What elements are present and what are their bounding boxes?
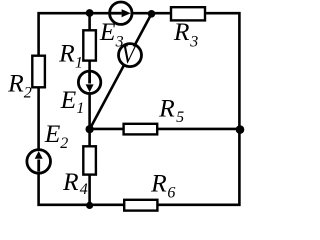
svg-text:2: 2 (60, 135, 68, 152)
svg-text:R: R (150, 169, 167, 198)
svg-text:R: R (58, 39, 75, 68)
svg-text:R: R (7, 69, 24, 98)
svg-text:3: 3 (115, 34, 124, 51)
svg-text:2: 2 (24, 84, 32, 101)
svg-text:4: 4 (80, 181, 88, 198)
svg-text:5: 5 (176, 109, 184, 126)
svg-text:1: 1 (75, 54, 83, 71)
svg-text:E: E (99, 17, 116, 46)
svg-text:6: 6 (167, 184, 175, 201)
svg-text:E: E (44, 119, 61, 148)
svg-text:R: R (62, 167, 79, 196)
svg-text:3: 3 (189, 34, 198, 51)
svg-text:E: E (60, 85, 77, 114)
svg-text:1: 1 (76, 100, 84, 117)
svg-text:R: R (158, 93, 175, 122)
svg-text:R: R (173, 17, 190, 46)
